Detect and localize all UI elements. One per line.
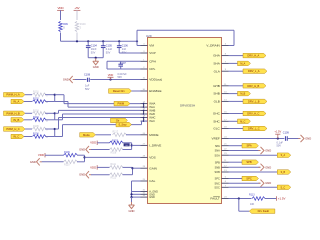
svg-text:R113: R113 [249,193,255,196]
svg-text:R103: R103 [33,109,39,112]
svg-text:SPB: SPB [215,161,220,164]
svg-text:C104: C104 [91,45,98,48]
svg-text:M_C: M_C [240,120,245,123]
svg-text:R117: R117 [113,130,119,133]
svg-text:IN_A: IN_A [13,100,19,104]
svg-text:GND: GND [129,209,135,213]
svg-text:+5V: +5V [74,6,79,10]
svg-text:PWM_H_B: PWM_H_B [6,111,19,115]
svg-text:DRV_L_C: DRV_L_C [248,127,260,131]
svg-text:R112: R112 [111,177,117,180]
svg-text:I_DRIVE: I_DRIVE [149,144,161,148]
svg-text:50V: 50V [106,52,111,55]
svg-text:DRV8353H: DRV8353H [180,104,195,108]
svg-text:R104: R104 [33,116,39,119]
svg-text:U29: U29 [146,34,152,38]
svg-text:GLC: GLC [213,127,220,131]
svg-text:SOC: SOC [214,186,220,189]
svg-text:C105: C105 [106,45,113,48]
svg-text:GND: GND [79,148,85,152]
svg-text:50V: 50V [118,76,123,79]
svg-text:GLB: GLB [214,100,220,104]
svg-text:SNC: SNC [215,182,220,185]
svg-text:ENABLE: ENABLE [149,89,161,93]
svg-text:R110: R110 [64,164,70,167]
svg-text:M_B: M_B [240,93,245,96]
svg-text:GAIN: GAIN [149,166,157,170]
svg-text:SHC: SHC [213,119,220,123]
svg-text:S_B: S_B [281,171,286,174]
svg-text:GND: GND [93,65,99,69]
svg-text:SHB: SHB [213,92,219,96]
svg-text:50V: 50V [91,52,96,55]
svg-text:R107: R107 [112,139,118,142]
svg-text:DRV_L_B: DRV_L_B [248,99,260,103]
svg-text:SNB: SNB [215,166,220,169]
svg-text:R105: R105 [33,125,39,128]
svg-text:GND: GND [265,149,271,153]
svg-text:50V: 50V [277,145,282,148]
svg-text:VDD: VDD [90,165,96,169]
svg-text:INHC: INHC [149,117,155,120]
svg-text:R102: R102 [33,98,39,101]
svg-text:GND: GND [63,78,69,82]
svg-text:SHA: SHA [213,62,220,66]
svg-text:C109: C109 [283,131,290,134]
svg-text:SPC: SPC [215,178,220,181]
svg-text:SNA: SNA [215,150,220,153]
svg-text:DRV_L_A: DRV_L_A [248,69,260,73]
svg-text:GND: GND [149,196,155,199]
svg-text:PWM_H_A: PWM_H_A [6,93,19,97]
svg-text:C106: C106 [122,45,129,48]
svg-text:+1.5V: +1.5V [274,130,281,134]
svg-text:VM: VM [149,44,154,48]
svg-text:S_C: S_C [281,186,286,189]
svg-text:SPA: SPA [215,145,220,148]
svg-text:SPA: SPA [246,144,251,148]
svg-text:PWM_H_C: PWM_H_C [6,127,19,131]
svg-text:GND: GND [265,181,271,185]
svg-text:R99: R99 [63,23,68,26]
svg-text:R109: R109 [64,151,70,154]
svg-text:PWM: PWM [118,102,125,106]
svg-text:R101: R101 [33,91,39,94]
svg-text:GHC: GHC [213,112,221,116]
svg-text:GHA: GHA [213,54,221,58]
svg-text:GLA: GLA [214,69,221,73]
svg-text:R100: R100 [80,23,87,26]
svg-text:C107: C107 [120,62,127,65]
svg-text:IN_B: IN_B [13,118,19,122]
svg-text:C108: C108 [84,74,91,77]
svg-text:VDS: VDS [149,156,155,160]
svg-text:VCP: VCP [149,51,155,55]
svg-text:SPB: SPB [246,160,252,164]
svg-text:VDD: VDD [108,73,114,77]
svg-text:E_Stop: E_Stop [119,124,128,127]
svg-text:Dir: Dir [116,119,119,122]
svg-text:SOA: SOA [215,154,221,157]
svg-text:INLC: INLC [149,120,155,123]
svg-text:GND: GND [265,165,271,169]
svg-text:V_DRAIN: V_DRAIN [206,44,219,48]
svg-text:CAL: CAL [149,179,155,183]
svg-text:VDD: VDD [38,153,44,157]
svg-text:Mode: Mode [83,133,90,137]
svg-text:INHB: INHB [149,110,155,113]
svg-text:GND: GND [305,137,311,141]
svg-text:R111: R111 [111,163,117,166]
svg-text:VREF: VREF [212,137,220,141]
svg-text:CPL: CPL [149,67,155,71]
svg-text:CPH: CPH [149,59,156,63]
svg-text:10K: 10K [125,145,129,147]
svg-text:S_A: S_A [281,154,286,157]
svg-text:MODE: MODE [149,133,158,137]
svg-text:VDD: VDD [57,6,63,10]
svg-text:GND: GND [30,160,36,164]
svg-text:IN_C: IN_C [13,135,19,139]
svg-text:10K: 10K [250,203,255,206]
svg-text:M_A: M_A [240,62,245,65]
svg-text:GHB: GHB [213,84,220,88]
svg-text:50V: 50V [85,88,90,91]
svg-text:Reset Drv: Reset Drv [113,89,126,93]
svg-text:DRV_H_C: DRV_H_C [247,112,259,116]
svg-text:DRV_H_A: DRV_H_A [247,54,259,58]
svg-text:SOB: SOB [215,171,221,174]
svg-text:GND: GND [79,173,85,177]
svg-text:R108: R108 [111,151,117,154]
svg-text:VDD: VDD [90,141,96,145]
svg-text:R106: R106 [33,133,39,136]
svg-text:SPC: SPC [246,177,252,181]
svg-text:VDD(out): VDD(out) [149,78,162,82]
svg-text:Drv Fault: Drv Fault [258,209,270,213]
svg-text:+1.5V: +1.5V [278,197,286,201]
svg-text:DRV_H_B: DRV_H_B [247,84,259,88]
svg-text:FAULT: FAULT [210,197,220,201]
